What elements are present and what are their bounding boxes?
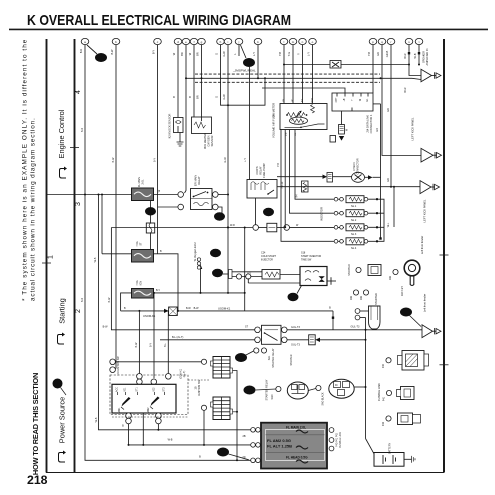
potentiometer resistor — [287, 113, 305, 118]
svg-text:FL HEAD 0.5G: FL HEAD 0.5G — [286, 456, 308, 460]
svg-text:HOW TO READ THIS SECTION: HOW TO READ THIS SECTION — [31, 373, 40, 475]
wire from node A to Power Source label — [61, 388, 67, 396]
svg-text:FC: FC — [286, 132, 288, 135]
bottom border line — [46, 472, 444, 474]
starter solenoid body — [369, 306, 381, 329]
injector pin circles left — [334, 197, 343, 243]
svg-text:B-Y: B-Y — [156, 289, 160, 292]
wire into starter relay lower-left — [160, 339, 255, 341]
vertical wire x391 to speaker 3 — [390, 45, 392, 187]
comb right bus — [233, 371, 238, 461]
svg-text:STARTER RELAY: STARTER RELAY — [272, 348, 275, 368]
svg-text:W-B: W-B — [94, 257, 97, 262]
svg-text:ST: ST — [245, 326, 249, 329]
svg-text:B-R: B-R — [81, 298, 84, 303]
vertical wire x178 to knock sensor — [177, 45, 179, 118]
svg-text:B-W: B-W — [103, 326, 109, 329]
svg-text:FL MAIN 2.0L: FL MAIN 2.0L — [286, 426, 306, 430]
node H blob — [210, 249, 221, 257]
node SC blob — [243, 58, 255, 67]
svg-text:No.4: No.4 — [351, 247, 357, 250]
wire into FL3 left — [121, 293, 132, 311]
dashed detail under ignition switch — [112, 416, 188, 418]
svg-text:L-Y: L-Y — [244, 158, 247, 162]
fusible link connector F42 — [398, 413, 421, 425]
wire COR to speaker triangle 3 — [277, 186, 420, 188]
start injector time switch box — [300, 267, 327, 286]
fusible link FL2 (7.5A) — [132, 250, 154, 263]
ignition switch contact labels — [116, 387, 166, 413]
ground under knock sensor — [179, 133, 181, 143]
comb connector 2 — [211, 397, 233, 420]
svg-text:Y-G: Y-G — [287, 52, 291, 56]
svg-text:FL ALT 1.25B: FL ALT 1.25B — [267, 444, 292, 449]
wire COR area links — [277, 176, 323, 178]
svg-text:C/OPN: C/OPN — [255, 166, 259, 174]
check connector ellipse — [352, 172, 365, 182]
svg-text:No.3: No.3 — [351, 233, 357, 236]
volume air flow meter box V1 — [280, 104, 327, 130]
svg-text:F41: F41 — [384, 396, 386, 401]
ignition key symbol — [404, 260, 420, 276]
tick on right border lower — [440, 364, 449, 366]
wire with noise filter — [284, 64, 330, 66]
svg-text:SENSOR: SENSOR — [210, 135, 214, 146]
wire FL3 output to the right — [154, 292, 246, 294]
short label ticks — [124, 224, 299, 329]
svg-text:LEFT KICK PANEL: LEFT KICK PANEL — [411, 117, 415, 140]
svg-text:B-R: B-R — [81, 128, 84, 133]
svg-text:W-B: W-B — [168, 439, 173, 442]
node D blob — [245, 351, 254, 356]
vertical wire x258 — [257, 45, 259, 79]
svg-text:Engine Control: Engine Control — [57, 109, 66, 158]
svg-text:J14 DATA LINK: J14 DATA LINK — [366, 115, 370, 133]
ignition switch feed circles top — [137, 374, 143, 380]
svg-text:R4: R4 — [296, 194, 299, 198]
svg-text:B: B — [329, 307, 331, 310]
svg-text:No.10: No.10 — [281, 181, 284, 188]
svg-text:SAO BLACK: SAO BLACK — [322, 392, 325, 405]
svg-text:B-W: B-W — [112, 157, 115, 163]
battery — [374, 453, 404, 467]
svg-text:W: W — [188, 52, 192, 55]
EFI main relay pin circles left — [178, 192, 184, 198]
svg-text:GR: GR — [376, 128, 379, 132]
starter relay feed wires — [111, 228, 254, 330]
resistor with diode under DLC — [341, 111, 343, 125]
svg-text:CHT: CHT — [336, 97, 338, 102]
svg-text:BATTERY: BATTERY — [389, 443, 392, 455]
svg-text:INJECTOR: INJECTOR — [261, 259, 273, 262]
svg-text:7.5A: 7.5A — [135, 280, 139, 286]
svg-text:2.0L: 2.0L — [141, 179, 145, 185]
svg-text:2D: 2D — [242, 456, 245, 459]
speaker triangle 2 — [421, 148, 433, 162]
svg-text:W: W — [158, 189, 161, 192]
sidebar divider line 1 — [46, 39, 48, 473]
svg-text:SC: SC — [245, 61, 253, 67]
node A marker — [53, 379, 63, 389]
connector circle letters — [84, 40, 419, 44]
node J blob mid — [212, 269, 223, 277]
injector feed wires — [281, 130, 344, 242]
battery ground — [404, 458, 412, 460]
right border of diagram — [443, 39, 445, 473]
svg-text:B: B — [160, 250, 162, 253]
svg-text:J: J — [216, 271, 219, 277]
EFI main relay pin circles right — [213, 192, 219, 198]
svg-text:Left front fender: Left front fender — [420, 236, 424, 254]
long vertical wire from connector x116 to starter relay — [113, 45, 116, 370]
wire COR down to node C — [255, 198, 257, 225]
injector No.4 — [346, 238, 364, 245]
clutch start switch box — [309, 335, 316, 345]
svg-text:G: G — [247, 388, 251, 394]
svg-text:r: r — [391, 40, 392, 44]
svg-text:C: C — [267, 210, 271, 216]
wire to data link connector top — [262, 88, 345, 93]
fusible link FL3 — [132, 289, 154, 299]
svg-text:actual circuit shown in the wi: actual circuit shown in the wiring diagr… — [30, 117, 37, 301]
node G blob — [244, 386, 256, 395]
arrow into check connector — [368, 175, 373, 179]
comb connector 1 — [211, 357, 233, 379]
wiper arrow — [295, 112, 301, 120]
svg-text:USOM-K1: USOM-K1 — [218, 306, 231, 310]
fusible link FL1 (FL MAIN 2.0L) — [132, 188, 154, 201]
svg-text:INJECTOR: INJECTOR — [320, 207, 324, 221]
wire y227 right segment with check circles — [253, 225, 259, 231]
svg-text:E: E — [291, 295, 295, 301]
svg-text:IGN KEY: IGN KEY — [401, 286, 404, 296]
svg-text:B-Y: B-Y — [152, 50, 156, 55]
svg-text:B-W: B-W — [194, 307, 200, 310]
svg-text:B: B — [99, 56, 103, 62]
svg-text:4: 4 — [75, 90, 82, 94]
svg-text:Y: Y — [297, 53, 301, 55]
air flow meter pin labels — [283, 98, 314, 136]
svg-text:GUL-T3: GUL-T3 — [351, 326, 361, 329]
ignition switch dashed boundary — [110, 375, 188, 415]
svg-text:W: W — [346, 128, 349, 131]
tick on divider line 2 — [70, 147, 79, 149]
svg-text:IGN: IGN — [139, 281, 143, 286]
junction squares under connectors — [408, 52, 410, 54]
svg-text:* The system shown here is an: * The system shown here is an EXAMPLE ON… — [22, 39, 29, 301]
svg-text:B-R: B-R — [79, 49, 83, 54]
svg-text:EFI MAIN: EFI MAIN — [194, 175, 198, 186]
comb2 pin circle — [201, 405, 206, 410]
cold start injector feed connector — [223, 273, 229, 275]
svg-text:FL MAIN: FL MAIN — [137, 177, 141, 187]
svg-text:B-Y: B-Y — [154, 158, 157, 163]
node blob under FL1 — [145, 207, 156, 215]
svg-text:FUEL PUMP: FUEL PUMP — [262, 163, 266, 178]
svg-text:W-B: W-B — [413, 53, 417, 58]
svg-text:Left front fender: Left front fender — [423, 294, 427, 312]
svg-text:G-W: G-W — [222, 94, 226, 100]
wire FL1 to EFI relay — [154, 194, 178, 196]
svg-text:THA: THA — [311, 98, 314, 103]
heated oxygen sensor box M31 — [192, 117, 212, 134]
svg-text:B: B — [199, 456, 201, 459]
starter relay pin circles — [255, 327, 261, 333]
ignition feed verticals — [138, 311, 140, 374]
svg-text:W-L: W-L — [387, 222, 390, 227]
svg-text:AMPLIFIER IN: AMPLIFIER IN — [425, 48, 429, 65]
svg-text:L-Y: L-Y — [252, 52, 256, 56]
svg-text:B-Y: B-Y — [150, 343, 153, 348]
svg-text:G: G — [215, 96, 219, 98]
svg-text:STARTER: STARTER — [348, 264, 351, 276]
svg-text:Starting: Starting — [58, 298, 67, 323]
svg-text:1 6 IGNITION SW: 1 6 IGNITION SW — [117, 356, 120, 376]
title underline — [9, 28, 488, 30]
relay aux circles — [254, 348, 259, 353]
svg-text:B: B — [172, 96, 176, 98]
wire from connector to node SC — [241, 45, 247, 58]
EFI main relay box — [191, 189, 213, 210]
svg-text:GR: GR — [386, 108, 390, 112]
svg-text:W: W — [296, 224, 299, 227]
svg-text:7.5A: 7.5A — [135, 241, 139, 247]
svg-text:B-L: B-L — [164, 342, 167, 347]
speaker triangle 4 — [422, 325, 433, 338]
DLC1 pin ticks — [336, 93, 338, 97]
wire FL3 right to ignition feed — [153, 293, 155, 378]
data link connector 1 box — [332, 93, 373, 111]
vertical wire x220 — [221, 45, 266, 106]
svg-text:STARTER: STARTER — [374, 293, 378, 305]
svg-text:B-W: B-W — [135, 342, 138, 348]
svg-text:L: L — [233, 53, 237, 55]
wire from FL1 down through fuse — [150, 201, 152, 250]
fusible link connector F41 — [397, 387, 415, 400]
alternator — [329, 379, 354, 398]
pump switch contact — [285, 124, 325, 127]
tick on divider line 1 — [42, 262, 51, 264]
ECU block left pin circles — [251, 428, 256, 433]
svg-text:G-W: G-W — [224, 157, 227, 163]
square junction on DLC bus end — [379, 237, 381, 239]
connector pair on oxygen branch — [197, 258, 200, 261]
svg-text:IGN: IGN — [361, 296, 363, 300]
fuel pump check component — [323, 175, 328, 179]
svg-text:W-R: W-R — [230, 224, 235, 227]
main battery bus vertical — [365, 318, 367, 439]
svg-text:LEFT KICK PANEL: LEFT KICK PANEL — [423, 199, 427, 222]
svg-text:+B: +B — [344, 98, 346, 101]
cold start injector wires — [232, 271, 262, 273]
wire color labels row — [110, 49, 417, 182]
svg-text:IGNITION SW: IGNITION SW — [198, 379, 201, 395]
starter solenoid pin circles — [355, 309, 360, 314]
fusible link connector F40 — [398, 351, 429, 371]
vertical wire x244.7 — [244, 228, 246, 311]
svg-text:ST2: ST2 — [164, 387, 166, 392]
node blob below time switch — [288, 293, 299, 301]
speaker amplifier triangle 1 — [421, 69, 432, 81]
svg-text:B-L (2L-T): B-L (2L-T) — [172, 336, 183, 339]
vertical wire x394 — [393, 187, 395, 227]
scattered wire labels — [81, 128, 390, 459]
svg-text:G-W: G-W — [222, 51, 226, 57]
svg-text:RELAY: RELAY — [197, 176, 201, 185]
svg-text:G: G — [215, 53, 219, 55]
svg-text:2B: 2B — [242, 435, 245, 438]
injector No.1 — [346, 196, 364, 203]
cold start injector box C24 — [262, 270, 280, 280]
svg-text:IGN: IGN — [351, 296, 353, 300]
svg-text:RELAY: RELAY — [259, 166, 263, 175]
wire from noise filter — [341, 64, 409, 66]
wire FL2 right then down — [154, 254, 179, 311]
vertical wire x228 — [227, 45, 229, 293]
svg-text:SPEAKER: SPEAKER — [422, 51, 426, 63]
vertical wire x186 to EFI main relay — [185, 45, 187, 194]
vertical wire x201 to oxygen sensor — [201, 45, 203, 118]
ignition switch bottom circles — [126, 413, 132, 419]
starter signal connector — [368, 265, 381, 276]
starter solenoid pair circles — [353, 290, 358, 295]
compensation resistor vertical — [311, 105, 315, 114]
svg-text:FL AM2 0.5G: FL AM2 0.5G — [267, 438, 291, 443]
long vertical wire from connector x85 — [85, 45, 251, 461]
wire blob SC to circuit opening relay — [249, 67, 251, 180]
svg-text:B: B — [124, 307, 126, 310]
top connector row circles — [81, 38, 423, 44]
vertical bus x380 — [380, 104, 382, 238]
dashed bus line 2 — [195, 81, 380, 83]
wire from y311 bus to starter area — [332, 311, 334, 330]
hand icon for Power Source — [58, 451, 66, 463]
svg-text:ACC: ACC — [116, 387, 119, 392]
comb1 pin circle — [201, 359, 206, 364]
vertical wire x373 into data link connector — [372, 45, 374, 94]
speaker triangle 3 — [420, 181, 431, 194]
solid bus wire y78 — [186, 78, 421, 79]
svg-text:1: 1 — [48, 255, 55, 259]
svg-text:BR: BR — [196, 52, 200, 56]
svg-text:OXYGEN: OXYGEN — [207, 135, 211, 146]
node E blob — [214, 212, 225, 220]
junction dots top wires — [283, 64, 285, 66]
svg-text:F40: F40 — [383, 363, 385, 368]
starter motor — [287, 382, 308, 399]
svg-text:IGN: IGN — [390, 276, 392, 280]
switch wiper 1 — [122, 397, 131, 407]
ignition side pin circles — [110, 359, 116, 365]
node B blob top-left — [95, 53, 107, 62]
svg-text:K2 KNOCK SENSOR: K2 KNOCK SENSOR — [168, 113, 172, 138]
ignition switch body — [112, 384, 176, 413]
wire from EFI relay to bus — [218, 194, 228, 196]
vertical wires into air flow meter — [283, 45, 285, 104]
svg-text:TIME SW: TIME SW — [301, 259, 312, 262]
svg-text:F42: F42 — [383, 421, 385, 426]
wire alternator to bus — [354, 386, 365, 388]
svg-text:SAO: SAO — [271, 394, 274, 399]
junction connector box on y311 — [164, 309, 169, 313]
wire to ECU block row2 — [142, 413, 144, 445]
small connector left of diode — [330, 136, 336, 143]
tick on right border — [440, 254, 449, 256]
long bus wire y311 — [121, 310, 169, 312]
svg-text:_JMSFWL/REAL: _JMSFWL/REAL — [232, 69, 256, 73]
svg-text:3: 3 — [75, 202, 82, 206]
svg-text:VOLUME AIR FLOW METER: VOLUME AIR FLOW METER — [272, 103, 276, 138]
wire node G to starter — [256, 389, 276, 390]
wire cold start to time switch — [280, 274, 300, 276]
starter relay box — [262, 325, 282, 344]
wire from connector to node B — [87, 45, 97, 54]
svg-text:Y-B: Y-B — [367, 52, 371, 56]
circuit opening relay box — [247, 180, 277, 199]
dashed bus line 1 — [195, 73, 380, 75]
svg-text:L-Y: L-Y — [307, 52, 311, 56]
noise filter box — [330, 61, 341, 69]
svg-text:USOM-K1: USOM-K1 — [143, 314, 156, 318]
vertical wire x419 — [418, 45, 420, 65]
svg-text:BR: BR — [180, 52, 184, 56]
svg-text:FUSIBLE LINK: FUSIBLE LINK — [377, 383, 381, 401]
wire from FL1 bus down to ECU row1 — [99, 195, 252, 430]
svg-text:H: H — [214, 251, 218, 257]
to oxygen ECU branch arrow — [200, 268, 202, 293]
vertical wire from connector x157 — [157, 45, 159, 254]
svg-text:GUL-T3: GUL-T3 — [291, 344, 301, 347]
svg-text:CONNECTOR 1: CONNECTOR 1 — [369, 114, 373, 133]
svg-text:(2L-T): (2L-T) — [183, 371, 186, 378]
hand icon for Starting — [57, 333, 65, 345]
fuse box under FL1 — [146, 223, 154, 233]
svg-text:B: B — [188, 96, 192, 98]
wires below ignition switch — [128, 424, 130, 445]
wire into FL1 — [47, 194, 132, 196]
svg-text:ST: ST — [139, 242, 143, 246]
svg-text:K OVERALL ELECTRICAL WIRING D: K OVERALL ELECTRICAL WIRING DIAGRAM — [27, 13, 291, 29]
vertical wire x409 feeding speaker amp — [409, 45, 421, 76]
switch wiper 2 — [151, 397, 160, 407]
svg-text:STARTER: STARTER — [290, 354, 293, 365]
svg-text:D: D — [239, 356, 243, 362]
svg-text:Y-B: Y-B — [277, 163, 280, 167]
svg-text:B: B — [122, 425, 124, 428]
wire from DLC to right bus — [373, 103, 381, 105]
stub wire to EFI relay lower pin — [158, 206, 178, 208]
svg-text:2: 2 — [75, 309, 82, 313]
injector right pin circles — [364, 197, 368, 243]
node C blob — [263, 208, 274, 216]
svg-text:FUSIBLE LINK: FUSIBLE LINK — [339, 432, 342, 448]
fuel pump resistor box — [302, 181, 309, 192]
injector No.2 — [346, 210, 364, 217]
vertical wire x382 to speaker 2 — [382, 45, 421, 156]
svg-text:GUL-T3: GUL-T3 — [291, 326, 301, 329]
battery feed diagonal — [366, 439, 375, 454]
junction dots bottom rows — [128, 444, 130, 446]
node J blob right — [400, 308, 412, 317]
svg-text:VC: VC — [292, 99, 294, 102]
svg-text:E: E — [218, 215, 222, 221]
svg-text:GR: GR — [376, 52, 380, 56]
svg-text:No.1: No.1 — [351, 205, 357, 208]
vertical wire x194 to oxygen sensor — [193, 45, 195, 118]
sidebar divider line 2 — [74, 39, 76, 473]
svg-text:AM1: AM1 — [118, 407, 121, 412]
svg-text:A: A — [55, 382, 60, 388]
